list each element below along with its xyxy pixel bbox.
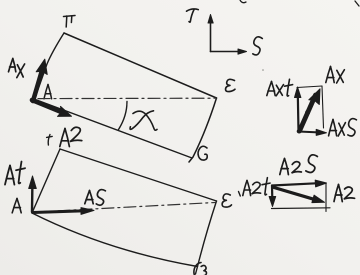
vector Ax value label [9,59,25,78]
node G label (plate 1) [198,146,207,160]
node A label (plate 2) [12,199,21,213]
vector At [29,176,37,212]
plate 2 bottom edge A-G [32,213,198,267]
small mark top right corner [355,1,359,6]
plate 1 right edge E-G [189,98,217,162]
vector Azs [272,180,327,187]
chord dash-dot line A-E (plate 2) [36,203,215,213]
plate 1 bottom edge A-G [34,99,192,158]
parallelogram thin right (Ax decomposition) [322,86,324,128]
axis label T [187,9,199,22]
vector Ax (plate 1) [33,59,47,101]
parallelogram thin top (Ax decomposition) [297,86,322,88]
angle label (cursive x) [130,111,157,130]
label Ax (decomposition) [326,67,345,84]
rectangle thin bottom (Az decomposition) [272,207,331,210]
small mark top edge center [240,0,246,3]
node E label (plate 1) [226,79,235,91]
node E label (plate 2) [222,194,231,207]
label Axt [267,79,293,96]
vector Az value label [60,127,82,146]
plate 2 right edge E-G [196,201,217,274]
label Azs [280,155,318,175]
vector As [33,208,94,215]
node A label (plate 1) [44,85,52,99]
vector At value label [5,162,25,185]
plate 2 top edge F-E [60,149,217,201]
vector Azt [269,186,276,207]
node F label [64,16,76,28]
vector Ax (decomposition diagonal) [300,89,321,131]
label Axs [329,119,357,136]
plate 2 left edge A-F [32,149,60,213]
vector Axt [295,87,301,132]
plate 1 left edge F-A [35,33,64,98]
vector Axs [299,129,327,135]
junction blob (Ax decomposition) [297,129,301,133]
vector Az (plate 1) [32,100,72,116]
speck near Axt [262,69,264,71]
node G label (plate 2, cut at bottom) [194,263,207,275]
tick after E [239,192,241,197]
axis T (vertical) [208,15,213,52]
vector Az (decomposition diagonal) [274,188,325,203]
axis S (horizontal) [211,49,247,54]
chord dash-dot line A-E [38,97,216,99]
angle arc [119,102,128,130]
rectangle thin right (Az decomposition) [325,183,327,212]
label Az (decomposition) [334,185,355,202]
axis label S [253,37,262,55]
label Azt [243,178,270,196]
plate 1 top edge F-E [64,33,217,98]
junction blob at A (plate 1) [30,98,35,103]
stray tick before Az [47,135,53,146]
vector As value label [85,190,106,206]
